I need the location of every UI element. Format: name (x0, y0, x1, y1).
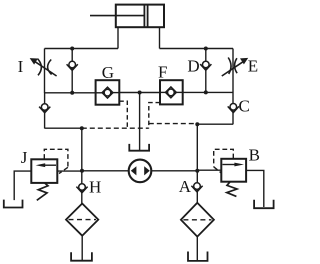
throttle valve E (adjustable) (222, 58, 248, 77)
svg-text:H: H (89, 177, 101, 196)
svg-text:E: E (248, 57, 258, 76)
wire: left lower horizontal to pilot node (45, 127, 82, 129)
svg-text:F: F (158, 63, 167, 82)
wire: left edge vertical upper (through throttle I) (44, 49, 46, 94)
tank (left outer) (4, 200, 23, 208)
throttle valve I (adjustable) (30, 58, 57, 76)
svg-text:G: G (102, 63, 114, 82)
node: right pilot junction (195, 122, 199, 126)
wire: pump rail (82, 170, 197, 172)
wire: cylinder right leg (159, 27, 161, 48)
pump (bidirectional) (129, 160, 152, 183)
wire: B left port (197, 169, 221, 171)
relief valve J (31, 159, 57, 200)
wire: left lower vertical (81, 128, 83, 204)
check valve H (76, 184, 87, 193)
check valve A (191, 183, 202, 192)
node: mid rail left junction (70, 91, 74, 95)
wire: right edge vertical (through throttle E and check C) (232, 49, 234, 125)
check valve (left edge lower) (39, 104, 50, 113)
svg-text:I: I (18, 57, 24, 76)
wire: left edge vertical lower (through check valve) (44, 93, 46, 129)
node: mid rail center junction (138, 91, 142, 95)
node: pump rail left junction (80, 169, 84, 173)
check valve D (200, 61, 211, 70)
node: top rail right junction (204, 47, 208, 51)
pilot line: dashed rail left (82, 127, 149, 129)
wire: B right port to tank (246, 170, 264, 207)
svg-text:J: J (21, 148, 28, 167)
pilot line: B dashed (214, 149, 234, 167)
wire: branch vertical right (check valve D) (205, 49, 207, 93)
pilot line: from F (149, 103, 160, 129)
node: pump rail right junction (195, 169, 199, 173)
svg-text:B: B (249, 146, 260, 165)
valve block G (pilot operated check) (96, 80, 120, 105)
wire: J left port to tank (14, 171, 31, 200)
tank (bottom right) (188, 252, 208, 261)
pilot line: from G (119, 101, 127, 128)
filter (right) (181, 203, 214, 237)
check valve (top left branch) (67, 61, 78, 70)
wire: right lower vertical (196, 124, 198, 203)
tank (bottom left) (71, 252, 92, 260)
tank (right outer) (254, 200, 274, 208)
wire: top rail right (160, 48, 234, 50)
pilot line: J dashed (44, 149, 68, 167)
cylinder (double-acting, top center) (90, 5, 164, 28)
svg-text:D: D (187, 57, 199, 76)
valve block F (pilot operated check) (160, 80, 183, 104)
pilot line: dashed rail right (149, 123, 198, 125)
wire: top rail left (45, 48, 119, 50)
node: left pilot junction (80, 126, 84, 130)
wire: J right port (57, 170, 82, 172)
svg-text:C: C (239, 97, 250, 116)
wire: cylinder left leg (117, 27, 119, 48)
node: mid rail right junction (204, 90, 208, 94)
wire: branch vertical left (check valve under top rail) (71, 49, 73, 93)
wire: mid rail right segment (183, 91, 233, 93)
wire: mid rail left segment (45, 92, 96, 94)
wire: right filter to tank (196, 237, 198, 260)
wire: mid rail between G and F (119, 92, 160, 94)
wire: center vertical to drain tank (139, 93, 141, 151)
relief valve B (221, 159, 246, 197)
node: top rail left junction (70, 47, 74, 51)
tank (center drain) (129, 144, 149, 151)
wire: left filter to tank (81, 236, 83, 260)
check valve C (228, 104, 239, 113)
svg-text:A: A (179, 177, 192, 196)
wire: right lower horizontal to pilot node (197, 123, 233, 125)
filter (left) (66, 204, 98, 236)
